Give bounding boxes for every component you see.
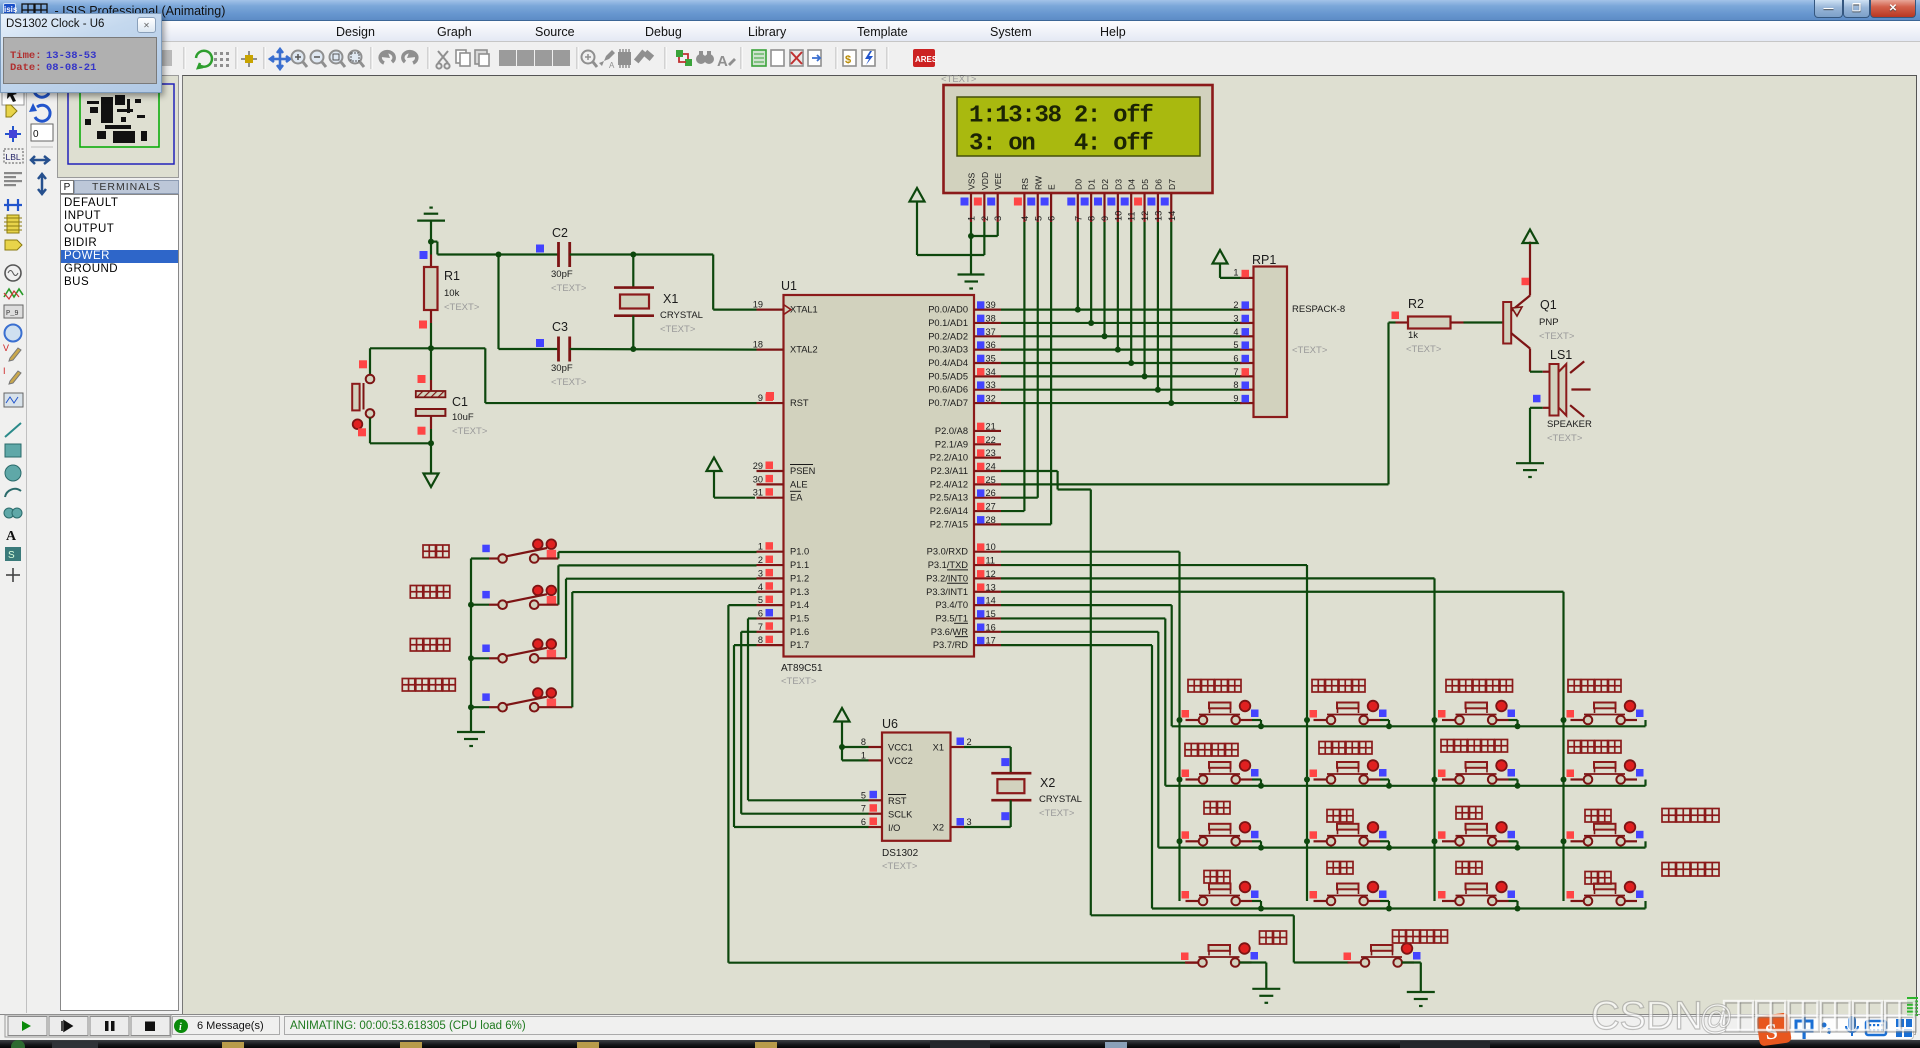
label 区间上限 xyxy=(1662,809,1719,823)
button keypad r1c1 声音设防 xyxy=(1182,701,1259,725)
wire VSS pin1 to ground xyxy=(970,222,972,275)
label 时减 xyxy=(1327,862,1353,875)
power terminal at U6 xyxy=(835,708,850,747)
wire P3.0 keypad column 1 xyxy=(1001,552,1180,901)
button 停止报警 stop alarm xyxy=(1344,943,1421,967)
button keypad r2c1 声音撤防 xyxy=(1182,760,1259,784)
capacitor C2 30pF xyxy=(536,226,587,294)
wire keypad r4c2 drop xyxy=(1380,901,1389,909)
label 分加 xyxy=(1456,807,1482,820)
wire keypad r4c3 drop xyxy=(1509,901,1518,909)
svg-text:@: @ xyxy=(1699,999,1734,1037)
wire R1 top to C2 xyxy=(431,242,558,255)
wire P3.3 keypad column 4 xyxy=(1001,592,1564,901)
wire P1.5 to U6 RST xyxy=(748,618,869,800)
button keypad r1c3 热红外设防 xyxy=(1438,701,1515,725)
button keypad r2c3 热红外撤防 xyxy=(1438,760,1515,784)
wire VDD pin2 to power xyxy=(917,202,984,255)
button keypad r4c2 时减 xyxy=(1310,882,1387,906)
label 热红外设防 xyxy=(1446,680,1513,693)
wire D4 (LCD pin11) to P0.4 xyxy=(1130,222,1132,363)
wire keypad r2c2 drop xyxy=(1380,780,1389,786)
wire P1.4 to setup button xyxy=(728,605,1186,963)
wire keypad r1c2 drop xyxy=(1380,720,1389,726)
ground below stop-alarm xyxy=(1407,992,1435,1006)
wire keypad r1c1 drop xyxy=(1252,720,1261,726)
button keypad r2c4 禁区撤防 xyxy=(1567,760,1644,784)
power terminal near LCD xyxy=(910,188,925,202)
node row2 col2 junction xyxy=(1386,783,1392,789)
wire D3 (LCD pin10) to P0.3 xyxy=(1117,222,1119,350)
wire P0.2 to RP1 pin4 xyxy=(1001,335,1241,337)
power terminal at Q1 xyxy=(1523,230,1538,244)
node column2 row3 junction xyxy=(1304,838,1310,844)
button keypad r3c3 分加 xyxy=(1438,822,1515,846)
wire SW1 to P1.0 xyxy=(558,552,756,559)
capacitor C3 30pF xyxy=(536,320,587,388)
wire C2 branch down to C3 xyxy=(499,255,559,350)
wire Q1 collector to speaker xyxy=(1530,349,1543,372)
node column3 row3 junction xyxy=(1432,838,1438,844)
speaker LS1 xyxy=(1533,348,1592,444)
op-amp U1 AT89C51 microcontroller xyxy=(753,279,1001,687)
wire D5 (LCD pin12) to P0.5 xyxy=(1143,222,1145,376)
node RST square xyxy=(766,392,774,400)
wire C2 right to XTAL1 xyxy=(570,255,757,310)
node row2 col3 junction xyxy=(1515,783,1521,789)
node row3 col1 junction xyxy=(1258,845,1264,851)
wire R2 to Q1 base xyxy=(1464,321,1504,323)
LCD display LCD1 LM016L xyxy=(944,85,1213,222)
label 声音设防 xyxy=(1188,680,1241,693)
label 穿越禁区 xyxy=(402,679,455,692)
label <TEXT> of LCD xyxy=(941,74,977,85)
ground above R1 xyxy=(417,208,445,242)
wire P3.1 keypad column 2 xyxy=(1001,565,1307,901)
node D2/P0.2 junction xyxy=(1102,333,1108,339)
label 时加 xyxy=(1204,871,1230,884)
label 窗户设防 xyxy=(1312,680,1365,693)
node sw4 junction xyxy=(468,704,474,710)
node column2 row1 junction xyxy=(1304,717,1310,723)
wire power to VCC1 xyxy=(842,746,869,748)
wire P3.5 keypad row 2 xyxy=(1001,618,1646,785)
wire P3.7 keypad row 4 xyxy=(1001,645,1646,908)
wire P1.6 to U6 SCLK xyxy=(741,632,868,814)
label 区间下限 xyxy=(1662,863,1719,877)
wire P1.7 to U6 I/O xyxy=(734,645,869,827)
button reset xyxy=(352,348,374,443)
wire E (LCD pin6) to P2.7 xyxy=(1001,222,1051,524)
wire speaker to ground xyxy=(1530,408,1543,463)
label 禁区设防 xyxy=(1568,680,1621,693)
wire node to C1/button xyxy=(370,347,485,349)
ground switches xyxy=(457,732,485,746)
ground below setup xyxy=(1252,989,1280,1003)
wire keypad r3c1 drop xyxy=(1252,841,1261,847)
wire P0.1 to RP1 pin3 xyxy=(1001,322,1241,324)
node column3 row1 junction xyxy=(1432,717,1438,723)
resistor R1 10k xyxy=(419,242,480,349)
node sw2 junction xyxy=(468,602,474,608)
button keypad r2c2 窗户撤防 xyxy=(1310,760,1387,784)
node column4 row1 junction xyxy=(1561,717,1567,723)
node row4 col3 junction xyxy=(1515,906,1521,912)
wire crystal to U6 X2 xyxy=(964,800,1011,827)
wire C1 bottom to arrow xyxy=(430,443,432,473)
label 停止报警 xyxy=(1393,930,1448,943)
wire P0.0 to RP1 pin2 xyxy=(1001,309,1241,311)
wire P3.4 keypad row 1 xyxy=(1001,605,1646,726)
wire button to C1 node xyxy=(370,442,431,444)
button keypad r1c4 禁区设防 xyxy=(1567,701,1644,725)
wire stop-alarm to ground xyxy=(1402,963,1421,993)
node column2 row2 junction xyxy=(1304,777,1310,783)
wire SW2 to P1.1 xyxy=(558,565,756,604)
wire D2 (LCD pin9) to P0.2 xyxy=(1103,222,1105,336)
node U6 VCC junction xyxy=(839,744,845,750)
wire SW3 to P1.2 xyxy=(566,579,757,659)
button keypad r4c1 时加 xyxy=(1182,882,1259,906)
node row2 col1 junction xyxy=(1258,783,1264,789)
node D4/P0.4 junction xyxy=(1128,360,1134,366)
wire P3.6 keypad row 3 xyxy=(1001,632,1646,848)
node row1 col3 junction xyxy=(1515,723,1521,729)
node D7/P0.7 junction xyxy=(1168,400,1174,406)
node column1 row1 junction xyxy=(1177,717,1183,723)
wire RW (LCD pin5) to P2.5 xyxy=(1001,222,1038,498)
wire setup stub xyxy=(1186,962,1198,964)
wire keypad r4c1 drop xyxy=(1252,901,1261,909)
node column4 row3 junction xyxy=(1561,838,1567,844)
resistor R2 1k xyxy=(1392,297,1464,355)
wire P0.5 to RP1 pin7 xyxy=(1001,375,1241,377)
node row1 col2 junction xyxy=(1386,723,1392,729)
label 热红外撤防 xyxy=(1441,740,1508,753)
label 时减 xyxy=(1327,810,1353,823)
button keypad r3c2 时减 xyxy=(1310,822,1387,846)
node row3 col2 junction xyxy=(1386,845,1392,851)
wire C3 to XTAL2 xyxy=(570,348,757,351)
wire switch common xyxy=(470,559,472,733)
node LCD pin1/3 junction xyxy=(968,233,974,239)
node X1 top junction xyxy=(630,252,636,258)
wire keypad r2c1 drop xyxy=(1252,780,1261,786)
switch SW1 xyxy=(471,539,558,562)
power terminal at RP1 xyxy=(1213,250,1241,278)
transistor Q1 PNP xyxy=(1503,242,1575,349)
label 声音 xyxy=(423,545,449,558)
wire P3.2 keypad column 3 xyxy=(1001,578,1435,901)
switch SW4 xyxy=(471,688,572,711)
label 分减 xyxy=(1585,810,1611,823)
switch SW2 xyxy=(471,586,558,609)
wire D6 (LCD pin13) to P0.6 xyxy=(1157,222,1159,390)
svg-text:CSDN: CSDN xyxy=(1591,994,1703,1038)
node column3 row2 junction xyxy=(1432,777,1438,783)
wire keypad r3c3 drop xyxy=(1509,841,1518,847)
wire to RST pin9 xyxy=(485,348,756,403)
wire P0.6 to RP1 pin8 xyxy=(1001,389,1241,391)
resistor pack RP1 RESPACK-8 xyxy=(1233,253,1345,417)
crystal X2 xyxy=(991,758,1082,820)
label 设置 xyxy=(1260,931,1287,944)
wire keypad r3c2 drop xyxy=(1380,841,1389,847)
label 窗户撤防 xyxy=(1319,742,1372,755)
power terminal at EA xyxy=(707,458,756,498)
label 热红外 xyxy=(410,639,450,652)
button keypad r4c3 分加 xyxy=(1438,882,1515,906)
wire D0 (LCD pin7) to P0.0 xyxy=(1077,222,1079,310)
wire power to VCC2 xyxy=(842,747,869,760)
node row4 col1 junction xyxy=(1258,906,1264,912)
chip U6 DS1302 xyxy=(861,717,972,872)
button 设置 setup xyxy=(1181,943,1258,967)
wire keypad r2c3 drop xyxy=(1509,780,1518,786)
node column1 row3 junction xyxy=(1177,838,1183,844)
label 分减 xyxy=(1585,872,1611,885)
node row4 col2 junction xyxy=(1386,906,1392,912)
wire P2.4 to R2 xyxy=(1001,323,1396,485)
node D6/P0.6 junction xyxy=(1155,387,1161,393)
node D0/P0.0 junction xyxy=(1075,307,1081,313)
label 声音撤防 xyxy=(1185,744,1238,757)
label 开窗户 xyxy=(410,586,450,599)
node C1 bottom junction xyxy=(428,440,434,446)
label 分加 xyxy=(1456,862,1482,875)
node D5/P0.5 junction xyxy=(1142,373,1148,379)
wire P0.4 to RP1 pin6 xyxy=(1001,362,1241,364)
wire U6 X1 to crystal xyxy=(964,747,1011,773)
label 禁区撤防 xyxy=(1568,741,1621,754)
wire D7 (LCD pin14) to P0.7 xyxy=(1170,222,1172,403)
capacitor C1 10uF xyxy=(416,348,488,443)
node D3/P0.3 junction xyxy=(1115,347,1121,353)
switch SW3 xyxy=(471,639,566,662)
wire P2.3 to stop-alarm button xyxy=(1001,471,1348,963)
node R1 bottom junction xyxy=(428,345,434,351)
ground LCD xyxy=(958,275,985,289)
ground below speaker xyxy=(1516,463,1544,477)
node column1 row2 junction xyxy=(1177,777,1183,783)
power terminal down below C1 xyxy=(424,474,439,488)
wire setup button to ground xyxy=(1239,963,1266,989)
wire P0.3 to RP1 pin5 xyxy=(1001,349,1241,351)
button keypad r1c2 窗户设防 xyxy=(1310,701,1387,725)
node D1/P0.1 junction xyxy=(1088,320,1094,326)
wire D1 (LCD pin8) to P0.1 xyxy=(1090,222,1092,323)
node row1 col1 junction xyxy=(1258,723,1264,729)
node column4 row2 junction xyxy=(1561,777,1567,783)
node R1 top junction xyxy=(428,239,434,245)
button keypad r4c4 分减 xyxy=(1567,882,1644,906)
wire keypad r1c3 drop xyxy=(1509,720,1518,726)
crystal X1 xyxy=(614,255,703,350)
wire VEE pin3 to node xyxy=(971,222,998,236)
button keypad r3c4 分减 xyxy=(1567,822,1644,846)
node row3 col3 junction xyxy=(1515,845,1521,851)
label 时加 xyxy=(1204,802,1230,815)
button keypad r3c1 时加 xyxy=(1182,822,1259,846)
node C2 branch junction xyxy=(496,252,502,258)
node X1 bottom junction xyxy=(630,346,636,352)
wire RS (LCD pin4) to P2.6 xyxy=(1001,222,1024,511)
wire SW4 to P1.3 xyxy=(572,592,756,707)
wire P0.7 to RP1 pin9 xyxy=(1001,402,1241,404)
node sw3 junction xyxy=(468,655,474,661)
